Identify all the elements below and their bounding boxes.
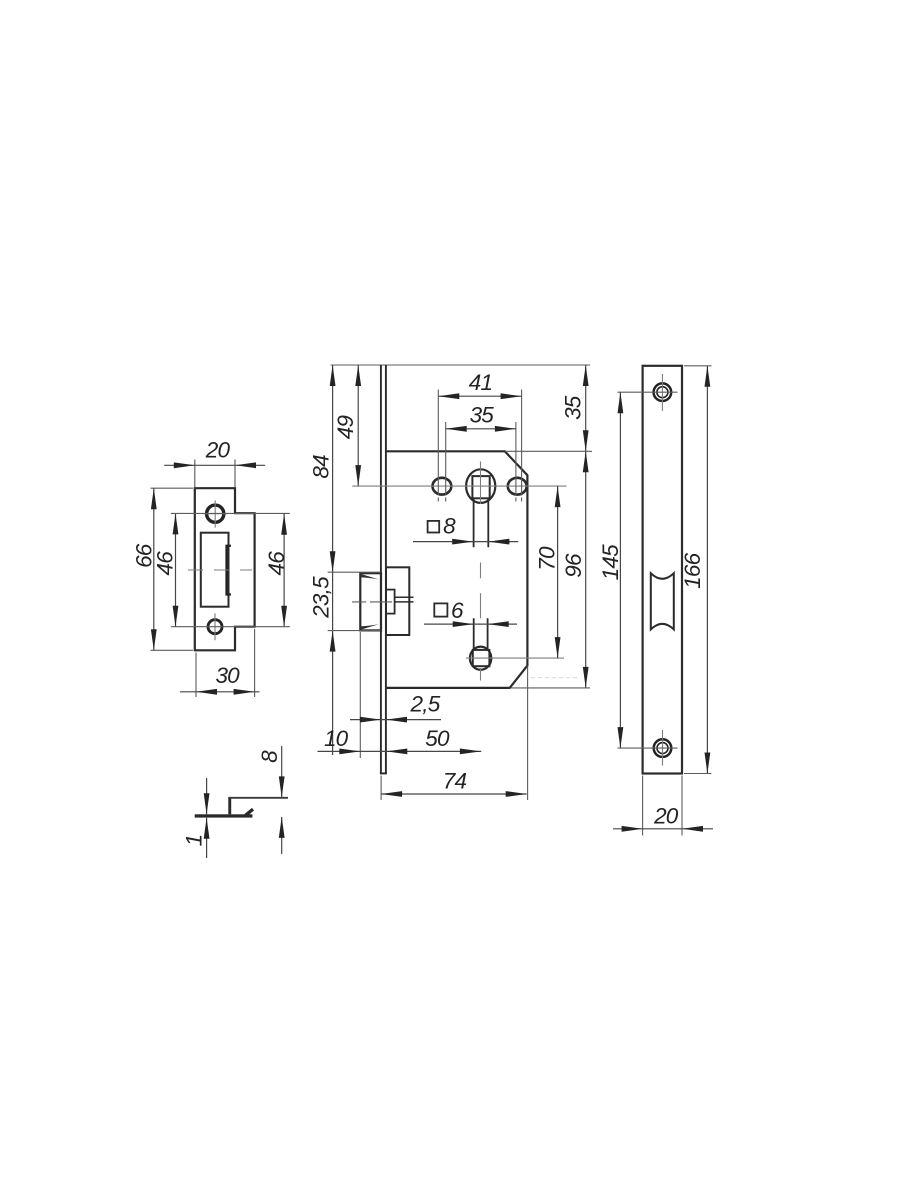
svg-text:96: 96 (561, 553, 586, 578)
dim 20 right arrows (622, 826, 703, 832)
dim 46 left line (175, 513, 177, 626)
dim 46 right line (283, 514, 285, 627)
lock body outline with chamfers (386, 451, 527, 688)
faceplate bottom cap (380, 772, 387, 774)
latch guide box (386, 567, 409, 635)
dim 10/50 line (318, 750, 482, 752)
latch opening lip bracket (227, 546, 231, 595)
hub circle (466, 469, 495, 503)
dim 1 line (profile) (206, 778, 208, 858)
dim 20 arrows (174, 462, 256, 468)
dim 66 line (153, 488, 155, 650)
dim 30 extension lines (196, 629, 255, 697)
dim 46 left arrows (173, 513, 179, 626)
dim 74 arrows (381, 791, 527, 797)
dim 74 extension lines (381, 666, 527, 800)
bottom screw hole ring (208, 620, 222, 634)
latch tail small rect (386, 590, 395, 614)
dim 41 arrows (438, 393, 521, 399)
dim square-6 line (424, 623, 517, 625)
svg-text:20: 20 (205, 438, 231, 463)
latch bevel marks (361, 574, 378, 629)
dim square-8 line (413, 541, 518, 543)
right side hole (508, 478, 527, 495)
dim 166 arrows (705, 366, 711, 774)
latch bottom extension line (328, 630, 381, 632)
square-6 symbol (434, 603, 447, 616)
dim 49 arrows (355, 365, 361, 486)
latch face extension vertical (359, 632, 361, 758)
hub vertical center line (480, 462, 482, 681)
svg-text:23,5: 23,5 (309, 576, 334, 619)
dim 50 arrows (386, 749, 481, 755)
faceplate top screw inner (657, 387, 668, 398)
latch top extension line (328, 571, 381, 573)
dim 70 line (557, 486, 559, 658)
faceplate latch window (651, 573, 674, 629)
faceplate top screw center mark (661, 374, 663, 411)
svg-text:30: 30 (215, 663, 240, 688)
latch opening rectangle (201, 533, 229, 607)
dim 20 extension lines (195, 460, 235, 488)
svg-text:145: 145 (598, 544, 623, 580)
faceplate bottom screw center mark (662, 730, 664, 766)
dim 145 arrows (618, 392, 624, 748)
lower spindle shaft lines (474, 618, 488, 649)
latch spring line (395, 596, 414, 598)
svg-text:74: 74 (443, 769, 467, 794)
lower hole circle (470, 647, 491, 670)
holes horizontal center line (352, 485, 566, 487)
dim 35 right arrows (583, 365, 589, 451)
faceplate bottom screw inner (657, 743, 668, 754)
dim 30 arrows (196, 689, 255, 695)
svg-text:46: 46 (153, 551, 178, 576)
dim 166 line (706, 366, 708, 774)
lower square hole (473, 650, 490, 666)
dim 66 arrows (151, 488, 157, 650)
dim 35 arrows (446, 426, 516, 432)
faceplate top screw outer (654, 383, 672, 401)
dim 8 line (profile) (281, 746, 283, 854)
svg-text:46: 46 (264, 551, 289, 576)
latch head (360, 573, 381, 630)
left side hole (433, 478, 452, 495)
svg-text:41: 41 (469, 370, 492, 395)
top screw hole ring (207, 505, 224, 522)
dim 20 line (164, 464, 265, 466)
svg-text:8: 8 (443, 514, 456, 539)
dim 84 line (332, 365, 334, 755)
svg-text:2,5: 2,5 (410, 692, 441, 717)
dim square-6 arrows (453, 621, 509, 627)
dim 49 line (357, 365, 359, 486)
dim 96 line (585, 451, 587, 688)
svg-text:49: 49 (333, 415, 358, 440)
dim 145 extension through screws (618, 392, 678, 748)
svg-text:84: 84 (308, 455, 333, 479)
svg-text:35: 35 (560, 395, 585, 420)
dim 74 line (381, 793, 527, 795)
dim 84 arrows (330, 365, 336, 572)
dim 10 arrow (339, 749, 360, 755)
plate horizontal center line (188, 569, 252, 571)
upper spindle shaft lines (474, 498, 489, 547)
strike plate outline (195, 488, 255, 650)
dim 41 line (438, 395, 521, 397)
svg-text:8: 8 (257, 750, 282, 763)
top screw hole center marks (203, 500, 227, 527)
dim 35 line (446, 428, 516, 430)
svg-text:166: 166 (680, 552, 705, 588)
svg-text:70: 70 (535, 546, 560, 571)
dim 1 arrows (profile) (204, 793, 210, 839)
dim 20 right line (613, 828, 713, 830)
body top extension line (505, 450, 592, 452)
faceplate bottom screw outer (654, 739, 672, 757)
dim 46 right arrows (281, 514, 287, 627)
square-8 symbol (428, 521, 440, 533)
section plate bar (195, 814, 253, 817)
dim 66 extension lines (151, 488, 194, 650)
svg-text:6: 6 (451, 598, 464, 623)
hub square hole (472, 476, 489, 498)
lower hole center line horizontal (466, 657, 564, 659)
dim 2,5 line (350, 719, 441, 721)
dim 23,5 arrow (330, 631, 336, 652)
svg-text:20: 20 (653, 804, 679, 829)
dim 96 arrows (583, 451, 589, 688)
dim square-8 arrows (452, 539, 509, 545)
section lip top line (228, 797, 288, 799)
section riser (228, 797, 231, 814)
latch center line (352, 601, 392, 603)
faceplate outline (643, 366, 682, 774)
dim 20 right extension lines (643, 776, 682, 836)
extension line through screw centers top (171, 512, 290, 514)
svg-text:35: 35 (470, 403, 495, 428)
bottom screw hole center marks (214, 613, 216, 640)
dim 145 line (619, 392, 621, 748)
dim 8 arrows (profile) (279, 776, 285, 838)
body bottom extension line (511, 687, 590, 689)
section lip curl (246, 809, 254, 815)
dim 166 extension lines (684, 366, 711, 774)
faceplate edge-on lines (381, 365, 386, 773)
extension line through screw centers bottom (171, 626, 290, 628)
top extension line (331, 364, 590, 366)
svg-text:1: 1 (182, 835, 207, 847)
dim 35 right line (585, 365, 587, 451)
dim 2,5 arrows (360, 717, 407, 723)
dim 70 arrows (555, 486, 561, 658)
svg-text:10: 10 (324, 726, 349, 751)
svg-text:50: 50 (425, 726, 450, 751)
hole extension verticals 41 (438, 390, 521, 502)
dim 30 line (180, 691, 260, 693)
faint erased line artifact (531, 677, 578, 679)
hole extension verticals 35 (446, 422, 516, 502)
